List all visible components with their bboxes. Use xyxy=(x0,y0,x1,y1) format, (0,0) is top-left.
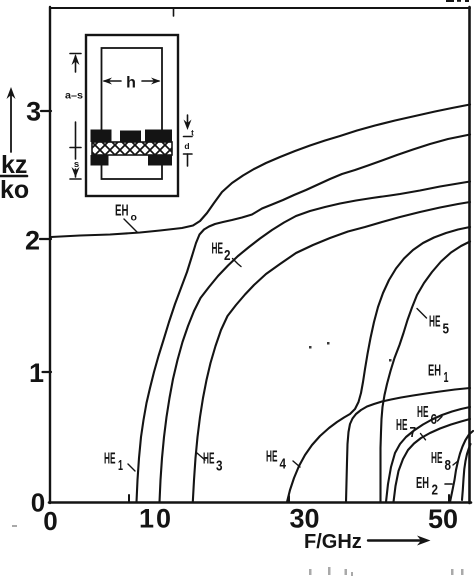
top metal strip left xyxy=(91,130,112,143)
svg-text:3: 3 xyxy=(26,97,41,127)
left dim upper arrow xyxy=(70,53,81,55)
F/GHz arrow xyxy=(368,539,421,541)
plot box frame xyxy=(50,7,470,9)
svg-text:HE: HE xyxy=(431,450,443,467)
svg-text:a–s: a–s xyxy=(65,91,83,102)
svg-text:0: 0 xyxy=(43,506,57,536)
x-axis tick 10 xyxy=(128,495,130,502)
curve HE8 xyxy=(450,431,473,502)
inset inner rectangle xyxy=(102,48,163,179)
curve HE4 xyxy=(287,227,470,502)
h dimension arrows xyxy=(104,80,121,82)
svg-text:8: 8 xyxy=(445,457,452,474)
svg-text:50: 50 xyxy=(428,504,458,534)
curve EH2 xyxy=(462,444,471,500)
y-axis tick 3 xyxy=(41,110,51,112)
svg-text:HE: HE xyxy=(266,449,278,466)
svg-text:h: h xyxy=(126,75,136,92)
svg-text:1: 1 xyxy=(29,358,44,388)
inset outer rectangle (waveguide) xyxy=(86,35,178,196)
svg-text:HE: HE xyxy=(417,404,429,421)
svg-text:30: 30 xyxy=(289,504,319,534)
x-axis tick 30 xyxy=(288,496,290,502)
tick below top border xyxy=(173,9,175,16)
svg-text:ko: ko xyxy=(0,176,29,204)
top metal strip right xyxy=(145,130,172,143)
svg-text:2: 2 xyxy=(25,226,40,256)
svg-text:HE: HE xyxy=(429,314,441,331)
right dim t arrow xyxy=(187,115,189,124)
curve HE2 (c3) xyxy=(160,182,471,503)
leader EH0 xyxy=(124,219,138,233)
svg-text:4: 4 xyxy=(280,456,287,473)
svg-text:HE: HE xyxy=(104,451,116,468)
dielectric crosshatch layer xyxy=(92,142,172,155)
svg-text:10: 10 xyxy=(139,504,173,534)
svg-text:HE: HE xyxy=(212,241,224,258)
right dim lower bar xyxy=(184,153,193,155)
svg-text:1: 1 xyxy=(118,457,123,474)
curve HE1 (c2) xyxy=(137,135,471,503)
svg-text:EH: EH xyxy=(428,363,441,380)
curve HE6 xyxy=(386,407,470,502)
bottom metal block right xyxy=(148,155,172,166)
svg-text:o: o xyxy=(131,212,137,224)
svg-text:EH: EH xyxy=(115,203,129,220)
svg-text:5: 5 xyxy=(443,321,450,338)
top edge cut-off dashes xyxy=(446,0,454,2)
svg-text:2: 2 xyxy=(224,247,231,264)
svg-text:F/GHz: F/GHz xyxy=(304,531,362,553)
curve HE5 xyxy=(381,242,471,503)
svg-text:2: 2 xyxy=(432,482,439,499)
svg-text:1: 1 xyxy=(444,369,449,386)
svg-text:HE: HE xyxy=(396,417,408,434)
y-axis tick 1 xyxy=(43,371,52,373)
bottom metal block left xyxy=(91,155,109,166)
curve EH1 xyxy=(346,388,470,502)
svg-text:EH: EH xyxy=(416,475,429,492)
x-axis tick 50 xyxy=(448,495,450,502)
faint bottom caption remnants xyxy=(12,525,464,576)
kz/ko up arrow xyxy=(10,94,12,152)
y-axis tick 2 xyxy=(40,238,51,240)
curve EH0 (c1) xyxy=(51,105,470,238)
svg-text:3: 3 xyxy=(216,458,223,475)
svg-text:6: 6 xyxy=(431,411,438,428)
curve HE7 xyxy=(394,419,471,502)
top metal strip middle xyxy=(120,131,141,142)
svg-text:d: d xyxy=(184,141,189,151)
left dim lower line with cross xyxy=(75,122,77,159)
curve HE3 (c4) xyxy=(193,202,470,502)
svg-text:7: 7 xyxy=(410,424,417,441)
small speck xyxy=(309,346,312,349)
